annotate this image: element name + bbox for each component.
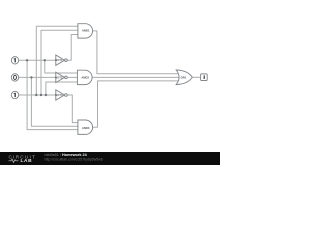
output indicator box <box>201 74 208 81</box>
label 1 in terminal A <box>15 58 16 62</box>
wire B from terminal 0 to NOT2 input <box>19 76 56 78</box>
wire A from terminal 1 to NOT1 input <box>19 59 56 61</box>
wire OR output to indicator <box>192 76 200 78</box>
svg-text:AND1: AND1 <box>82 29 90 33</box>
label 1 in output box <box>204 75 205 79</box>
wire NOT2 output to AND2 in2 <box>67 76 77 78</box>
inverter NOT1 <box>56 55 65 65</box>
terminal input 1 (A) <box>11 57 18 64</box>
svg-text:AND3: AND3 <box>82 126 90 130</box>
and-gate AND1 <box>78 24 93 38</box>
wire A branch to AND2 in1 <box>45 60 78 73</box>
label 0 in terminal B <box>14 75 17 79</box>
footer bar <box>0 152 220 165</box>
junction dot B/AND3 <box>30 76 32 78</box>
wire C from terminal 1 to NOT3 input <box>19 94 56 96</box>
and-gate AND2 <box>77 70 92 84</box>
wire NOT3 output to AND3 in1 <box>67 95 78 123</box>
label 1 in terminal C <box>15 93 16 97</box>
svg-text:NOT2: NOT2 <box>55 75 63 79</box>
or-gate OR1 <box>176 70 192 85</box>
junction dot C/AND2 <box>45 94 47 96</box>
svg-text:LAB: LAB <box>21 158 33 164</box>
wire C branch to AND1 in2 <box>41 30 78 95</box>
wire C branch to AND2 in3 <box>46 82 78 95</box>
wire AND1 output to OR in1 <box>93 31 179 74</box>
terminal input 1 (C) <box>11 91 18 98</box>
junction dot C/AND1a <box>35 94 37 96</box>
svg-text:http://circuitlab.com/c/257by6: http://circuitlab.com/c/257by6p5w5w6 <box>45 157 103 161</box>
terminal input 0 (B) <box>11 74 18 81</box>
and-gate AND3 <box>78 120 93 134</box>
wire B branch to AND3 in2 <box>31 77 78 126</box>
wire NOT1 output to AND1 in3 <box>67 35 78 61</box>
wire AND2 output to OR in2 <box>92 76 180 78</box>
inverter NOT3 <box>56 90 65 100</box>
svg-text:AND2: AND2 <box>81 75 89 79</box>
svg-text:NOT1: NOT1 <box>55 58 63 62</box>
junction dot A/AND2 <box>44 59 46 61</box>
inverter NOT2 <box>56 72 65 82</box>
wire C branch to AND1 in1 <box>36 26 78 95</box>
wire AND3 output to OR in3 <box>93 81 179 127</box>
junction dot C/AND1b <box>40 94 42 96</box>
junction dot A/AND3 <box>26 59 28 61</box>
svg-text:OR1: OR1 <box>181 75 187 79</box>
svg-text:NOT3: NOT3 <box>55 93 63 97</box>
wire A branch to AND3 in3 <box>27 60 78 129</box>
